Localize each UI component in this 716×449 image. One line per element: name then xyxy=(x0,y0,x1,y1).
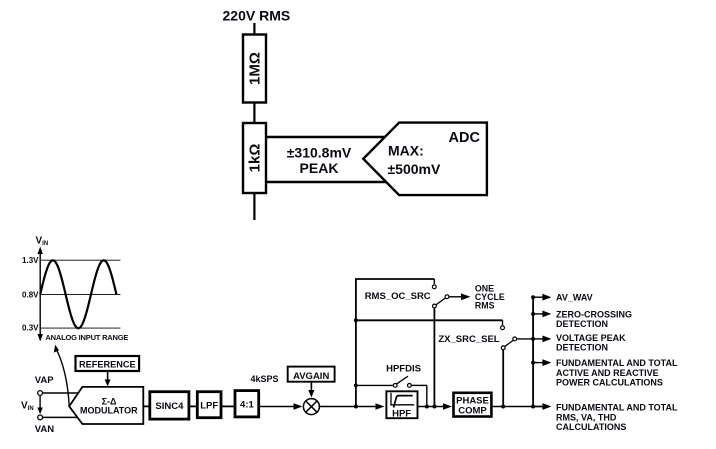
svg-text:HPF: HPF xyxy=(392,409,411,420)
wire: modulator to SINC4 xyxy=(143,405,150,407)
block SINC4 xyxy=(150,392,189,419)
wire: left vertical bus xyxy=(355,279,357,407)
svg-text:AVGAIN: AVGAIN xyxy=(293,371,329,382)
svg-text:REFERENCE: REFERENCE xyxy=(79,360,136,370)
svg-text:4:1: 4:1 xyxy=(240,399,254,410)
junction dots on output row xyxy=(501,405,505,409)
svg-text:ACTIVE AND REACTIVE: ACTIVE AND REACTIVE xyxy=(556,368,659,378)
svg-text:1MΩ: 1MΩ xyxy=(247,52,264,85)
svg-text:0.8V: 0.8V xyxy=(22,291,39,300)
svg-text:±310.8mV: ±310.8mV xyxy=(287,145,352,161)
svg-text:CALCULATIONS: CALCULATIONS xyxy=(556,422,626,432)
wire: HPF to PHASE COMP xyxy=(418,406,445,408)
ADC block (pentagon) xyxy=(363,123,487,196)
block AVGAIN xyxy=(288,367,335,382)
wire: second line (ZX source from multiplier node) xyxy=(356,319,503,321)
wire: ZX lever to right bus xyxy=(517,338,533,340)
resistor R1 1MΩ xyxy=(243,35,266,103)
svg-text:ADC: ADC xyxy=(449,130,481,146)
wire: source to R1 xyxy=(253,23,255,35)
graph: 0.3V level line xyxy=(40,327,120,329)
block HPF with response icon xyxy=(386,391,417,419)
svg-text:LPF: LPF xyxy=(200,401,218,412)
wire: R1 to R2 xyxy=(253,103,255,124)
graph: 1.3V level line xyxy=(40,259,120,261)
terminal circle VAN xyxy=(38,415,43,420)
wire: LPF to 4:1 xyxy=(221,405,235,407)
graph: 0.8V level line xyxy=(40,294,120,296)
wire: stub below R2 xyxy=(253,193,255,220)
svg-text:RMS_OC_SRC: RMS_OC_SRC xyxy=(365,291,431,302)
switch RMS_OC_SRC xyxy=(365,285,449,308)
svg-text:±500mV: ±500mV xyxy=(388,161,441,177)
multiplier (circle with X) xyxy=(303,399,319,415)
junction dots at HPF output xyxy=(425,405,429,409)
wire: bottom horizontal to ADC xyxy=(266,181,387,183)
svg-text:VAP: VAP xyxy=(35,375,54,386)
sigma-delta modulator block xyxy=(69,387,143,424)
wire: multiplier to HPF xyxy=(319,406,377,408)
output labels xyxy=(556,292,678,432)
svg-text:1kΩ: 1kΩ xyxy=(247,144,264,173)
block PHASE COMP xyxy=(454,393,492,417)
arrow into PHASE COMP xyxy=(443,403,452,409)
terminal circle VAP xyxy=(38,391,43,396)
svg-text:VAN: VAN xyxy=(35,424,54,435)
block 4:1 xyxy=(235,391,259,417)
svg-text:RMS, VA, THD: RMS, VA, THD xyxy=(556,412,617,422)
svg-text:220V RMS: 220V RMS xyxy=(223,8,291,24)
wire: output row xyxy=(491,406,544,408)
graph: vertical axis with arrows xyxy=(39,252,41,336)
arrow into HPF xyxy=(376,403,385,409)
svg-text:COMP: COMP xyxy=(458,406,487,417)
arrow: AVGAIN to multiplier xyxy=(310,382,312,391)
svg-text:ANALOG INPUT RANGE: ANALOG INPUT RANGE xyxy=(45,333,128,342)
block LPF xyxy=(197,392,221,418)
svg-text:1.3V: 1.3V xyxy=(22,256,39,265)
arrow: switch to ONE CYCLE RMS xyxy=(449,296,462,298)
junction dot xyxy=(354,405,358,409)
svg-text:MODULATOR: MODULATOR xyxy=(80,405,138,415)
graph: level labels xyxy=(22,256,39,332)
wire: SINC4 to LPF xyxy=(189,405,197,407)
wire: RMS_OC_SRC bottom contact down to HPF output xyxy=(433,308,435,406)
svg-text:4kSPS: 4kSPS xyxy=(251,374,279,384)
svg-text:PEAK: PEAK xyxy=(300,160,339,176)
arrow: VIN down between terminals xyxy=(39,396,41,410)
svg-text:DETECTION: DETECTION xyxy=(556,319,608,329)
REFERENCE box xyxy=(76,356,140,371)
svg-text:ZX_SRC_SEL: ZX_SRC_SEL xyxy=(438,334,499,345)
junction dots on right bus xyxy=(531,295,535,299)
svg-text:FUNDAMENTAL AND TOTAL: FUNDAMENTAL AND TOTAL xyxy=(556,402,678,412)
switch HPFDIS xyxy=(354,376,427,406)
wire: ZX bottom contact down to output row xyxy=(502,350,504,407)
svg-text:MAX:: MAX: xyxy=(388,143,424,159)
output arrow ZERO-CROSSING xyxy=(533,313,544,315)
resistor R2 1kΩ xyxy=(243,123,266,193)
wire with arrow: 4:1 to multiplier xyxy=(259,406,295,408)
output arrow FUNDAMENTAL ACTIVE xyxy=(533,362,544,364)
output arrow FUNDAMENTAL RMS xyxy=(533,406,544,408)
output arrow VOLTAGE PEAK xyxy=(533,338,544,340)
graph: sine wave xyxy=(40,260,116,328)
wire: VAN to modulator xyxy=(43,416,86,418)
wire: VAP to modulator xyxy=(43,392,89,394)
svg-text:SINC4: SINC4 xyxy=(155,401,184,412)
svg-text:HPFDIS: HPFDIS xyxy=(386,364,421,375)
svg-text:0.3V: 0.3V xyxy=(22,324,39,333)
arrow: REFERENCE to modulator xyxy=(107,371,109,381)
svg-text:RMS: RMS xyxy=(475,301,495,311)
svg-text:POWER CALCULATIONS: POWER CALCULATIONS xyxy=(556,378,663,388)
output arrow AV_WAV xyxy=(533,296,544,298)
svg-text:AV_WAV: AV_WAV xyxy=(556,292,593,302)
switch ZX_SRC_SEL xyxy=(438,326,516,350)
label ONE CYCLE RMS xyxy=(475,284,505,311)
junction dot on left bus xyxy=(354,318,358,322)
svg-text:DETECTION: DETECTION xyxy=(556,343,608,353)
curved arrow: modulator to graph xyxy=(57,350,70,407)
svg-text:FUNDAMENTAL AND TOTAL: FUNDAMENTAL AND TOTAL xyxy=(556,358,678,368)
label: ±310.8mV PEAK xyxy=(287,145,352,177)
wire: top line to RMS_OC_SRC xyxy=(355,278,434,280)
wire: right vertical bus xyxy=(532,297,534,406)
wire: top horizontal to ADC xyxy=(266,136,385,138)
svg-text:ZERO-CROSSING: ZERO-CROSSING xyxy=(556,309,632,319)
svg-text:VOLTAGE PEAK: VOLTAGE PEAK xyxy=(556,333,626,343)
